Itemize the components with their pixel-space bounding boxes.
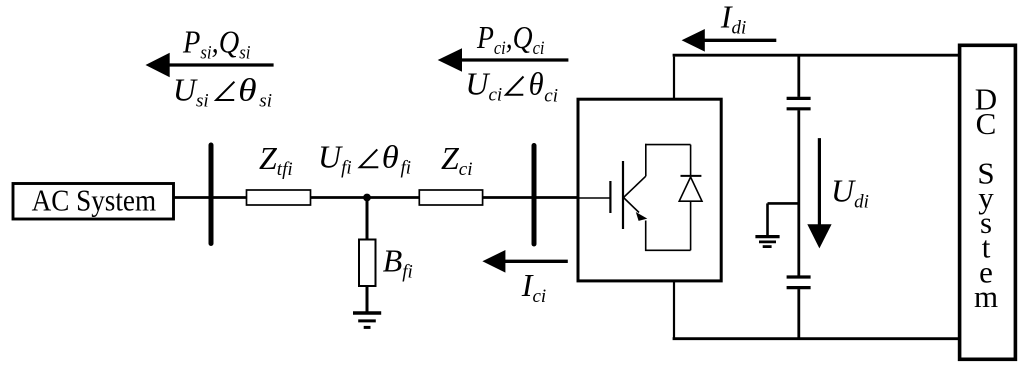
svg-text:Ici: Ici [521, 267, 546, 307]
svg-text:fi: fi [401, 158, 412, 179]
svg-text:Bfi: Bfi [383, 243, 413, 283]
svg-text:AC System: AC System [32, 183, 157, 218]
svg-text:Ufi: Ufi [318, 139, 352, 179]
svg-text:Udi: Udi [831, 173, 869, 213]
svg-text:θ: θ [529, 65, 544, 101]
svg-text:Pci,Qci: Pci,Qci [476, 19, 544, 59]
svg-text:Psi,Qsi: Psi,Qsi [182, 24, 250, 64]
svg-text:m: m [974, 279, 998, 314]
svg-text:si: si [259, 91, 272, 112]
svg-text:C: C [976, 106, 997, 141]
svg-text:Usi: Usi [173, 71, 209, 111]
svg-text:Idi: Idi [720, 0, 746, 38]
svg-text:θ: θ [238, 71, 257, 107]
svg-text:ci: ci [544, 85, 558, 106]
svg-text:θ: θ [382, 139, 399, 175]
svg-text:Zci: Zci [441, 140, 473, 180]
svg-text:Ztfi: Ztfi [259, 140, 293, 180]
svg-text:Uci: Uci [465, 65, 502, 105]
